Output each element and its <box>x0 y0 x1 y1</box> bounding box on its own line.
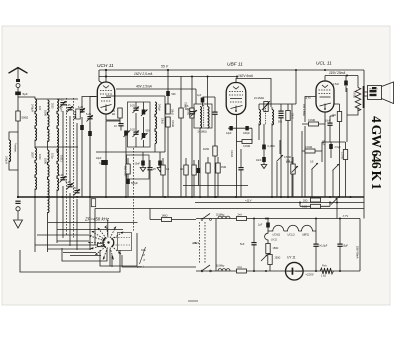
fuse F2 <box>237 269 247 273</box>
osc section wires <box>136 96 165 152</box>
wire pots <box>312 169 333 197</box>
U4 electrodes <box>287 270 292 272</box>
wire T3 top <box>357 76 359 88</box>
wire R5 to bus <box>167 127 169 197</box>
wire speaker <box>365 92 368 96</box>
wire C32 <box>267 219 269 232</box>
coil box C <box>100 233 137 266</box>
wire R2 to bus <box>120 118 126 197</box>
IF note line <box>48 222 138 224</box>
osc grid wire <box>96 151 165 153</box>
switch stub wires <box>112 255 196 267</box>
capacitor C19 500pF <box>166 91 170 96</box>
svg-text:55 V: 55 V <box>161 65 169 69</box>
resistor R12 <box>286 111 290 121</box>
svg-text:500: 500 <box>146 130 151 133</box>
svg-text:4 GW 646 K 1: 4 GW 646 K 1 <box>369 116 384 190</box>
smoothing cap C33 <box>315 219 317 244</box>
wire U1 cathode down <box>106 114 120 121</box>
svg-text:0×A: 0×A <box>238 266 243 269</box>
wire gang C <box>56 149 58 243</box>
resistor R20 <box>311 204 321 208</box>
wire to earth <box>17 211 19 220</box>
resistor R19 20R <box>311 198 321 202</box>
switch link dashed 1 <box>66 98 68 236</box>
svg-text:10kΩ: 10kΩ <box>161 118 164 124</box>
trimmer C3 <box>67 107 72 110</box>
svg-text:0,5MΩ: 0,5MΩ <box>286 161 293 164</box>
switch spindle wire upper <box>107 220 109 236</box>
wire U3 cathode down <box>324 112 326 197</box>
feed wire x90 lower <box>90 197 95 250</box>
svg-text:240μH: 240μH <box>31 104 35 112</box>
scanned sheet area <box>2 26 390 305</box>
svg-text:0,1MΩ: 0,1MΩ <box>305 146 312 149</box>
svg-text:0,1MΩ: 0,1MΩ <box>171 120 174 127</box>
coil L5 <box>35 148 37 190</box>
svg-text:500Ω: 500Ω <box>22 116 29 120</box>
wire T1 secondary feed <box>207 77 209 107</box>
svg-text:UBF 11: UBF 11 <box>227 62 243 68</box>
trimmer C10b <box>124 131 128 136</box>
smoothing cap C34 <box>339 219 341 244</box>
wire trimmer returns <box>82 117 90 197</box>
cathode node line <box>228 127 252 129</box>
output transformer T3 winding <box>355 88 361 111</box>
svg-text:1000: 1000 <box>43 158 47 164</box>
svg-text:100: 100 <box>38 106 41 111</box>
svg-text:0,1MΩ: 0,1MΩ <box>268 145 275 148</box>
resistor R5 <box>166 117 170 127</box>
resistor R26 <box>184 165 188 175</box>
wire coil bank top row <box>35 98 78 100</box>
IF transformer T2 secondary <box>272 110 274 126</box>
wire gang D <box>62 111 64 177</box>
coil box A <box>20 250 120 272</box>
wire R8 loop <box>237 128 253 141</box>
wire U2 anode routing <box>236 79 271 108</box>
wire T2 tops <box>259 104 272 110</box>
osc coil L10 <box>155 102 157 144</box>
pot R10 0.5M <box>277 155 284 162</box>
IF transformer T2 primary <box>259 110 261 126</box>
ferrite antenna coil L1 <box>9 140 11 162</box>
T3 core bar <box>363 86 365 108</box>
svg-text:gew. L: gew. L <box>137 265 145 269</box>
wire gang E <box>69 116 71 184</box>
svg-text:1MΩ: 1MΩ <box>162 214 168 218</box>
T1 top link wire <box>196 89 215 112</box>
svg-text:1MΩ: 1MΩ <box>203 147 209 151</box>
wire gang G down <box>63 186 77 250</box>
wire L1 top <box>9 132 18 140</box>
svg-text:5-25: 5-25 <box>130 105 135 108</box>
fuse F1 <box>237 217 247 221</box>
svg-text:162V 2,5 mA: 162V 2,5 mA <box>134 72 152 76</box>
heater chain UCL11 <box>284 225 299 231</box>
ground C12 <box>140 168 146 172</box>
svg-text:UCL11: UCL11 <box>288 233 296 236</box>
trimmer C6 <box>87 116 92 119</box>
capacitor C42 <box>147 167 152 170</box>
wire C24/C25 <box>263 124 265 165</box>
svg-text:10μF: 10μF <box>96 157 102 160</box>
svg-text:UY11: UY11 <box>271 239 277 242</box>
svg-text:2×1,5μF: 2×1,5μF <box>319 245 328 248</box>
svg-text:10nF: 10nF <box>256 159 262 162</box>
U1 internal electrodes <box>100 86 112 111</box>
choke L9 <box>218 269 230 271</box>
U3 internal electrodes <box>319 85 332 109</box>
wire bank to grid <box>82 97 97 114</box>
svg-text:MΩ: MΩ <box>185 108 189 111</box>
capacitor C6c <box>88 131 92 136</box>
svg-text:2×1MΩ: 2×1MΩ <box>254 96 265 100</box>
coil box B <box>62 248 107 261</box>
wire R18 <box>345 142 347 197</box>
svg-text:1μF: 1μF <box>258 224 263 227</box>
scan artifact dash <box>188 300 198 302</box>
55V supply rail <box>99 69 364 71</box>
svg-text:UY 11: UY 11 <box>287 256 296 260</box>
svg-text:7000Ω: 7000Ω <box>353 91 355 98</box>
wire T3 bottom <box>347 88 358 142</box>
series coil box <box>98 243 104 246</box>
svg-text:185V 85mA: 185V 85mA <box>356 246 359 259</box>
padder C15 <box>142 110 146 115</box>
svg-text:1000: 1000 <box>38 154 41 160</box>
ground C25 <box>261 165 267 169</box>
coil L2 <box>35 99 37 141</box>
svg-text:10011: 10011 <box>60 155 63 162</box>
capacitor C13 <box>158 161 162 166</box>
svg-text:110Mtty: 110Mtty <box>216 214 225 217</box>
capacitor C20 1uF <box>201 98 205 103</box>
trimmer C5 <box>79 109 84 112</box>
svg-text:≈220V: ≈220V <box>306 273 315 277</box>
arm arrowheads <box>88 226 124 260</box>
capacitor C6b <box>80 125 84 130</box>
IF transformer T1 can <box>194 104 212 128</box>
svg-text:500: 500 <box>278 121 283 124</box>
svg-text:15μF: 15μF <box>343 245 349 248</box>
svg-text:5nF: 5nF <box>240 242 245 246</box>
resistor R32 <box>76 109 80 119</box>
svg-text:UCL 11: UCL 11 <box>316 61 332 67</box>
svg-text:150Ω: 150Ω <box>273 247 279 250</box>
secondary bus <box>95 208 364 210</box>
svg-text:30kΩ: 30kΩ <box>171 109 174 115</box>
resistor R14 1k <box>337 112 341 122</box>
mains switch S2a <box>201 219 203 221</box>
anode feed line <box>325 75 358 77</box>
resistor R28 <box>206 163 210 173</box>
resistor R3b <box>179 108 183 118</box>
svg-text:5-25: 5-25 <box>130 129 135 132</box>
svg-text:2,5nF: 2,5nF <box>333 83 340 86</box>
-7.7V / mains top leg <box>196 218 360 220</box>
antenna plug <box>16 84 20 88</box>
wire C28 <box>330 116 334 142</box>
switch gang dashed link 2 <box>199 222 201 264</box>
wire U3 anode <box>324 76 326 82</box>
wire R6 <box>191 77 193 198</box>
svg-text:20Ω: 20Ω <box>303 200 308 203</box>
wafer frame <box>118 233 132 251</box>
speaker cone <box>382 82 394 104</box>
wire R7 to bus <box>214 156 216 197</box>
resistor R29 1M <box>216 163 220 173</box>
resistor R13 0.1M <box>309 122 319 126</box>
switch gang dashed link <box>204 222 206 264</box>
wire R30 <box>292 157 294 197</box>
svg-text:100μ: 100μ <box>50 153 53 159</box>
switch S3 + resistor R22 150R <box>261 255 268 262</box>
switch spindle wire lower <box>109 249 111 267</box>
osc top wire <box>106 95 165 97</box>
capacitor C28 10nF <box>327 123 332 126</box>
wire R12 <box>287 104 289 197</box>
wire coil bank second row <box>35 146 78 148</box>
svg-text:0,1MΩ: 0,1MΩ <box>243 145 250 148</box>
resistor R4 <box>166 104 170 114</box>
capacitor C23 100pF <box>245 126 248 130</box>
svg-text:-0,7V: -0,7V <box>305 97 311 100</box>
earth capacitor <box>15 201 20 204</box>
wire R20 branch <box>300 203 330 207</box>
capacitor C40 10uF <box>101 160 105 165</box>
capacitor C41 500uF <box>126 179 130 184</box>
U2 internal electrodes <box>229 87 243 112</box>
osc can 2 outline <box>127 155 150 179</box>
svg-text:1000: 1000 <box>43 110 47 116</box>
coil L7 <box>57 149 59 191</box>
svg-text:100pF: 100pF <box>243 132 250 135</box>
svg-text:1 kΩ: 1 kΩ <box>321 275 326 278</box>
svg-text:UCH 11: UCH 11 <box>97 63 114 69</box>
trimmer C8 <box>67 184 72 187</box>
svg-text:1MΩ: 1MΩ <box>221 166 226 169</box>
wire R15 <box>302 131 322 197</box>
resistor R31 bus bridge <box>91 199 95 207</box>
capacitor C11 <box>104 160 108 165</box>
wire C30 <box>336 197 338 219</box>
wire R13 <box>302 97 325 198</box>
svg-text:5-25: 5-25 <box>59 99 65 102</box>
capacitor C10 <box>118 123 123 126</box>
wire C19 <box>167 70 169 104</box>
resistor R24 2k <box>126 164 130 174</box>
svg-text:2007: 2007 <box>31 152 35 158</box>
trimmer C18 <box>142 133 146 138</box>
wire C11 down <box>105 165 107 197</box>
trimmer C2 <box>60 102 65 105</box>
T2 core <box>265 108 267 125</box>
capacitor C29 <box>329 144 333 149</box>
resistor R18 <box>343 150 347 160</box>
svg-text:150Ω: 150Ω <box>275 257 281 260</box>
star feed elbows <box>48 241 102 256</box>
wire C27 <box>345 76 347 93</box>
svg-text:5μF: 5μF <box>23 92 28 96</box>
band switch S1 rotor <box>107 241 109 243</box>
trimmer C14 <box>133 108 138 111</box>
right frame wire lower <box>359 219 361 272</box>
IF transformer T1 primary <box>200 107 202 129</box>
svg-text:2×1MΩ): 2×1MΩ) <box>198 130 207 134</box>
svg-text:1μF: 1μF <box>197 94 202 97</box>
wire R14 <box>334 104 340 197</box>
svg-text:1Ω: 1Ω <box>166 168 169 171</box>
switch legend arrow <box>140 247 146 264</box>
chassis bus <box>17 196 364 198</box>
wire U1 grid left <box>90 97 97 198</box>
svg-text:UCH11: UCH11 <box>273 233 281 236</box>
T1 tuning cap left <box>190 111 195 114</box>
wire R25 <box>162 158 164 197</box>
svg-text:10nF: 10nF <box>135 163 141 166</box>
svg-text:4Ω: 4Ω <box>180 168 183 171</box>
wire R21-R22 <box>268 254 270 272</box>
wire gang A <box>34 140 36 149</box>
resistor R21 150R <box>266 244 270 254</box>
mains vertical wire <box>215 219 217 272</box>
wire R24 chain <box>127 158 129 197</box>
antenna coupling cap <box>16 79 20 82</box>
svg-text:500: 500 <box>172 93 177 96</box>
oscillator coupling wire <box>106 121 120 160</box>
feedback wire <box>322 141 346 143</box>
wire T2 bottoms <box>259 123 272 197</box>
capacitor C43 <box>197 168 201 173</box>
trimmer C4 <box>74 114 79 117</box>
mains switch S2b <box>201 270 203 272</box>
trimmer C30 <box>331 198 338 205</box>
capacitor C24 <box>262 145 266 150</box>
svg-text:1kΩ: 1kΩ <box>332 114 337 117</box>
pot R16 <box>312 163 319 170</box>
oscillator can outline <box>128 102 151 147</box>
coil L6 <box>48 150 50 192</box>
svg-text:240μH: 240μH <box>158 104 161 111</box>
svg-text:5-25: 5-25 <box>86 113 92 116</box>
T1 tuning cap right <box>212 112 217 115</box>
wire input link top <box>18 97 35 99</box>
ground C13 <box>157 168 163 172</box>
wire C13 <box>159 152 161 168</box>
wire antenna to resistor <box>17 95 19 111</box>
capacitor C26 <box>278 111 283 114</box>
left wafer feed wire <box>35 244 101 246</box>
heater chain UCH11 <box>268 225 284 231</box>
T1 core dashed <box>203 105 205 127</box>
svg-text:Fe/o: Fe/o <box>322 265 327 268</box>
switch link dashed 3 (osc gang) <box>133 148 135 232</box>
pot R17 <box>333 164 340 171</box>
capacitor C44 <box>238 167 243 170</box>
trimmer C16 <box>133 132 138 135</box>
svg-text:40V 2,5mA: 40V 2,5mA <box>136 85 152 89</box>
40V screen rail <box>116 88 196 90</box>
svg-text:0,1/4Ω: 0,1/4Ω <box>230 150 233 157</box>
link line upper <box>57 229 123 231</box>
resistor R6 0.5M <box>190 108 194 118</box>
+11V line <box>195 202 364 204</box>
capacitor C25 10nF <box>262 157 266 162</box>
coil L3 <box>48 100 50 142</box>
resistor R15 <box>305 149 315 153</box>
wire R26/R27 <box>186 158 199 197</box>
coil L4 <box>57 99 59 141</box>
wafer dashed contacts <box>113 238 130 246</box>
wire C12 <box>142 152 144 168</box>
switch link dashed 2 <box>73 98 75 238</box>
svg-text:2,2MΩ: 2,2MΩ <box>341 152 344 159</box>
resistor R25 <box>161 165 165 175</box>
wire gang B <box>47 141 49 253</box>
svg-text:2kΩ 0,5W: 2kΩ 0,5W <box>124 166 127 177</box>
svg-text:UBF11: UBF11 <box>302 233 310 236</box>
trimmer C9 <box>74 190 79 193</box>
resistor R8 0.1M <box>242 140 252 144</box>
wire rail stub to U2 <box>236 77 238 79</box>
svg-text:162V 6mA: 162V 6mA <box>238 74 253 78</box>
svg-text:S1a: S1a <box>141 248 146 252</box>
band switch contact arms <box>88 226 124 260</box>
resistor R2 20k <box>118 108 122 118</box>
svg-text:45V 2,5mA: 45V 2,5mA <box>302 104 305 116</box>
wire L1 bottom <box>9 160 18 170</box>
wire C26 <box>280 104 282 197</box>
svg-text:ZF=458 kHz: ZF=458 kHz <box>84 217 110 222</box>
wire U1 top cap <box>105 70 107 82</box>
earth symbol <box>14 220 23 228</box>
mains bottom leg <box>196 270 360 272</box>
staircase line y235 <box>37 234 89 236</box>
svg-text:0,1MΩ: 0,1MΩ <box>308 119 315 122</box>
trimmer C7 <box>60 177 65 180</box>
right frame wire upper <box>363 70 365 219</box>
wire U1 anode to rails <box>99 70 102 83</box>
svg-text:115V 25mA: 115V 25mA <box>329 71 345 75</box>
svg-text:240μH: 240μH <box>5 156 9 164</box>
wire R3b <box>180 77 182 198</box>
antenna symbol <box>9 68 28 74</box>
choke L8 <box>218 216 230 218</box>
heater UY11 hook <box>265 231 268 244</box>
svg-text:-7,7V: -7,7V <box>342 214 348 218</box>
svg-text:6-25: 6-25 <box>78 106 84 109</box>
resistor R27 <box>192 165 196 175</box>
wire R28/R29 <box>208 157 218 197</box>
resistor 500R <box>16 111 20 121</box>
svg-text:kΩ: kΩ <box>112 112 115 116</box>
resistor R23 1M <box>162 218 172 222</box>
wire pot <box>277 140 280 197</box>
capacitor C22 12uF <box>229 126 232 130</box>
wire C44 <box>240 149 242 197</box>
wire resistor to chassis bus <box>17 121 19 197</box>
pot R30 <box>291 164 295 174</box>
wire gang F <box>76 123 78 190</box>
resistor R7 1M <box>213 146 217 156</box>
svg-text:500μF: 500μF <box>131 182 138 185</box>
earth terminal circle <box>16 207 20 211</box>
svg-text:2×A: 2×A <box>238 214 243 217</box>
capacitor C12 <box>141 161 145 166</box>
wire C42 <box>149 160 151 197</box>
svg-text:K: K <box>144 258 146 262</box>
